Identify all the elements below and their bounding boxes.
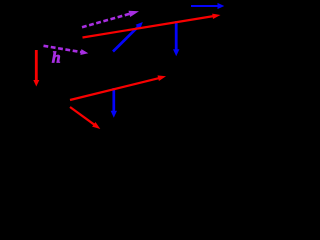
red arrow R1 (vertical, pointing down, left side) [35,50,38,82]
blue arrow B4 (vertical, pointing down, from middle red ray) [112,88,115,112]
blue arrow B2 (horizontal, pointing right, top right) [191,5,219,7]
photon: purple dashed arrow P1 (upper, pointing up-right) [82,14,131,28]
photon: purple dashed arrow P2 (pointing down-right, above h label) [44,46,83,53]
blue arrow B3 (vertical, pointing down, from top red ray) [175,21,178,51]
red ray R3 (middle, pointing up-right) [70,78,160,100]
red ray R2 (long, top, pointing up-right) [83,16,215,38]
red arrow R4 (pointing down-right) [70,107,95,125]
svg-text:h: h [52,50,61,67]
blue arrow B1 (steep, pointing up-right, crosses top red ray) [113,26,139,52]
